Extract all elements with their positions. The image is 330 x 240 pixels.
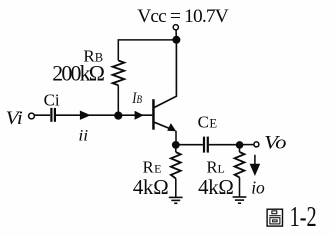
input terminal Vi (open circle) [29,113,35,119]
wire: output node to Vo terminal [240,144,254,146]
transistor Q1 collector lead [154,40,176,108]
wire: Ci to base node [56,114,118,116]
svg-text:Vcc = 10.7V: Vcc = 10.7V [137,6,229,27]
ground symbol under RE [169,197,183,203]
wire: emitter down to node [175,131,177,145]
resistor RL zigzag [235,152,245,177]
current arrow ii on input wire [80,111,91,120]
wire: emitter node to CE [176,144,203,146]
capacitor CE [203,137,209,153]
node: output junction dot [236,141,244,149]
resistor RE zigzag [171,152,181,178]
wire: RL to ground [239,177,241,196]
wire: RB bottom to base node [117,85,119,115]
svg-text:io: io [251,177,265,197]
current arrow IB on base wire [135,111,144,120]
node: base junction dot [114,111,122,119]
wire: top rail to RB [118,40,176,61]
transistor Q1 base bar [152,99,155,130]
svg-text:Vi: Vi [6,108,23,129]
svg-text:4kΩ: 4kΩ [133,176,169,199]
transistor Q1 emitter lead [154,122,174,130]
svg-text:4kΩ: 4kΩ [198,176,234,199]
resistor RB zigzag [113,61,125,86]
wire: output node down to RL [239,145,241,152]
wire: Vcc terminal stub [175,30,177,40]
svg-text:1-2: 1-2 [290,201,317,233]
wire: RE to ground [175,179,177,198]
wire: CE to output node [209,144,240,146]
svg-text:Vo: Vo [264,132,286,153]
output terminal Vo (open circle) [254,142,259,147]
capacitor Ci [50,108,56,122]
node: Vcc junction dot [172,36,180,44]
wire: Vi terminal to Ci [34,114,50,116]
svg-text:ii: ii [78,127,88,145]
node: emitter junction dot [172,141,180,149]
transistor Q1 emitter arrowhead [167,123,176,131]
svg-text:Ci: Ci [44,90,60,109]
wire: emitter node down to RE [175,145,177,152]
Vcc supply terminal (open circle) [173,25,178,30]
wire: base node to transistor [118,114,152,116]
svg-text:200kΩ: 200kΩ [52,62,104,86]
ground symbol under RL [233,197,247,203]
current arrow io [250,155,261,176]
caption CJK character "tu" (figure) drawn as strokes [267,209,282,226]
